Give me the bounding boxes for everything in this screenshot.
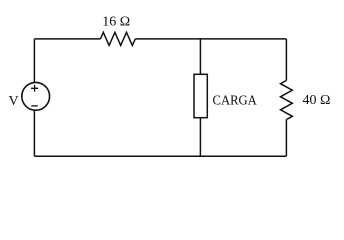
- resistor 40 ohm (vertical zigzag): [281, 80, 293, 119]
- wire left branch lower: [33, 110, 35, 156]
- voltage source V (circle): [22, 82, 50, 110]
- plus sign inside source: [31, 85, 38, 92]
- load box CARGA: [194, 74, 207, 117]
- resistor 16 ohm (horizontal zigzag): [100, 32, 135, 45]
- wire middle branch lower: [199, 118, 201, 157]
- svg-text:V: V: [9, 94, 19, 109]
- wire right branch upper: [285, 39, 287, 81]
- wire top-right segment: [135, 38, 286, 40]
- wire middle branch upper: [199, 39, 201, 74]
- wire top-left segment: [34, 38, 100, 40]
- svg-text:16 Ω: 16 Ω: [102, 15, 130, 30]
- wire right branch lower: [285, 120, 287, 157]
- svg-text:CARGA: CARGA: [213, 93, 258, 108]
- wire bottom: [34, 155, 286, 157]
- wire left branch upper: [33, 39, 35, 83]
- svg-text:40 Ω: 40 Ω: [303, 93, 331, 108]
- minus sign inside source: [31, 105, 37, 107]
